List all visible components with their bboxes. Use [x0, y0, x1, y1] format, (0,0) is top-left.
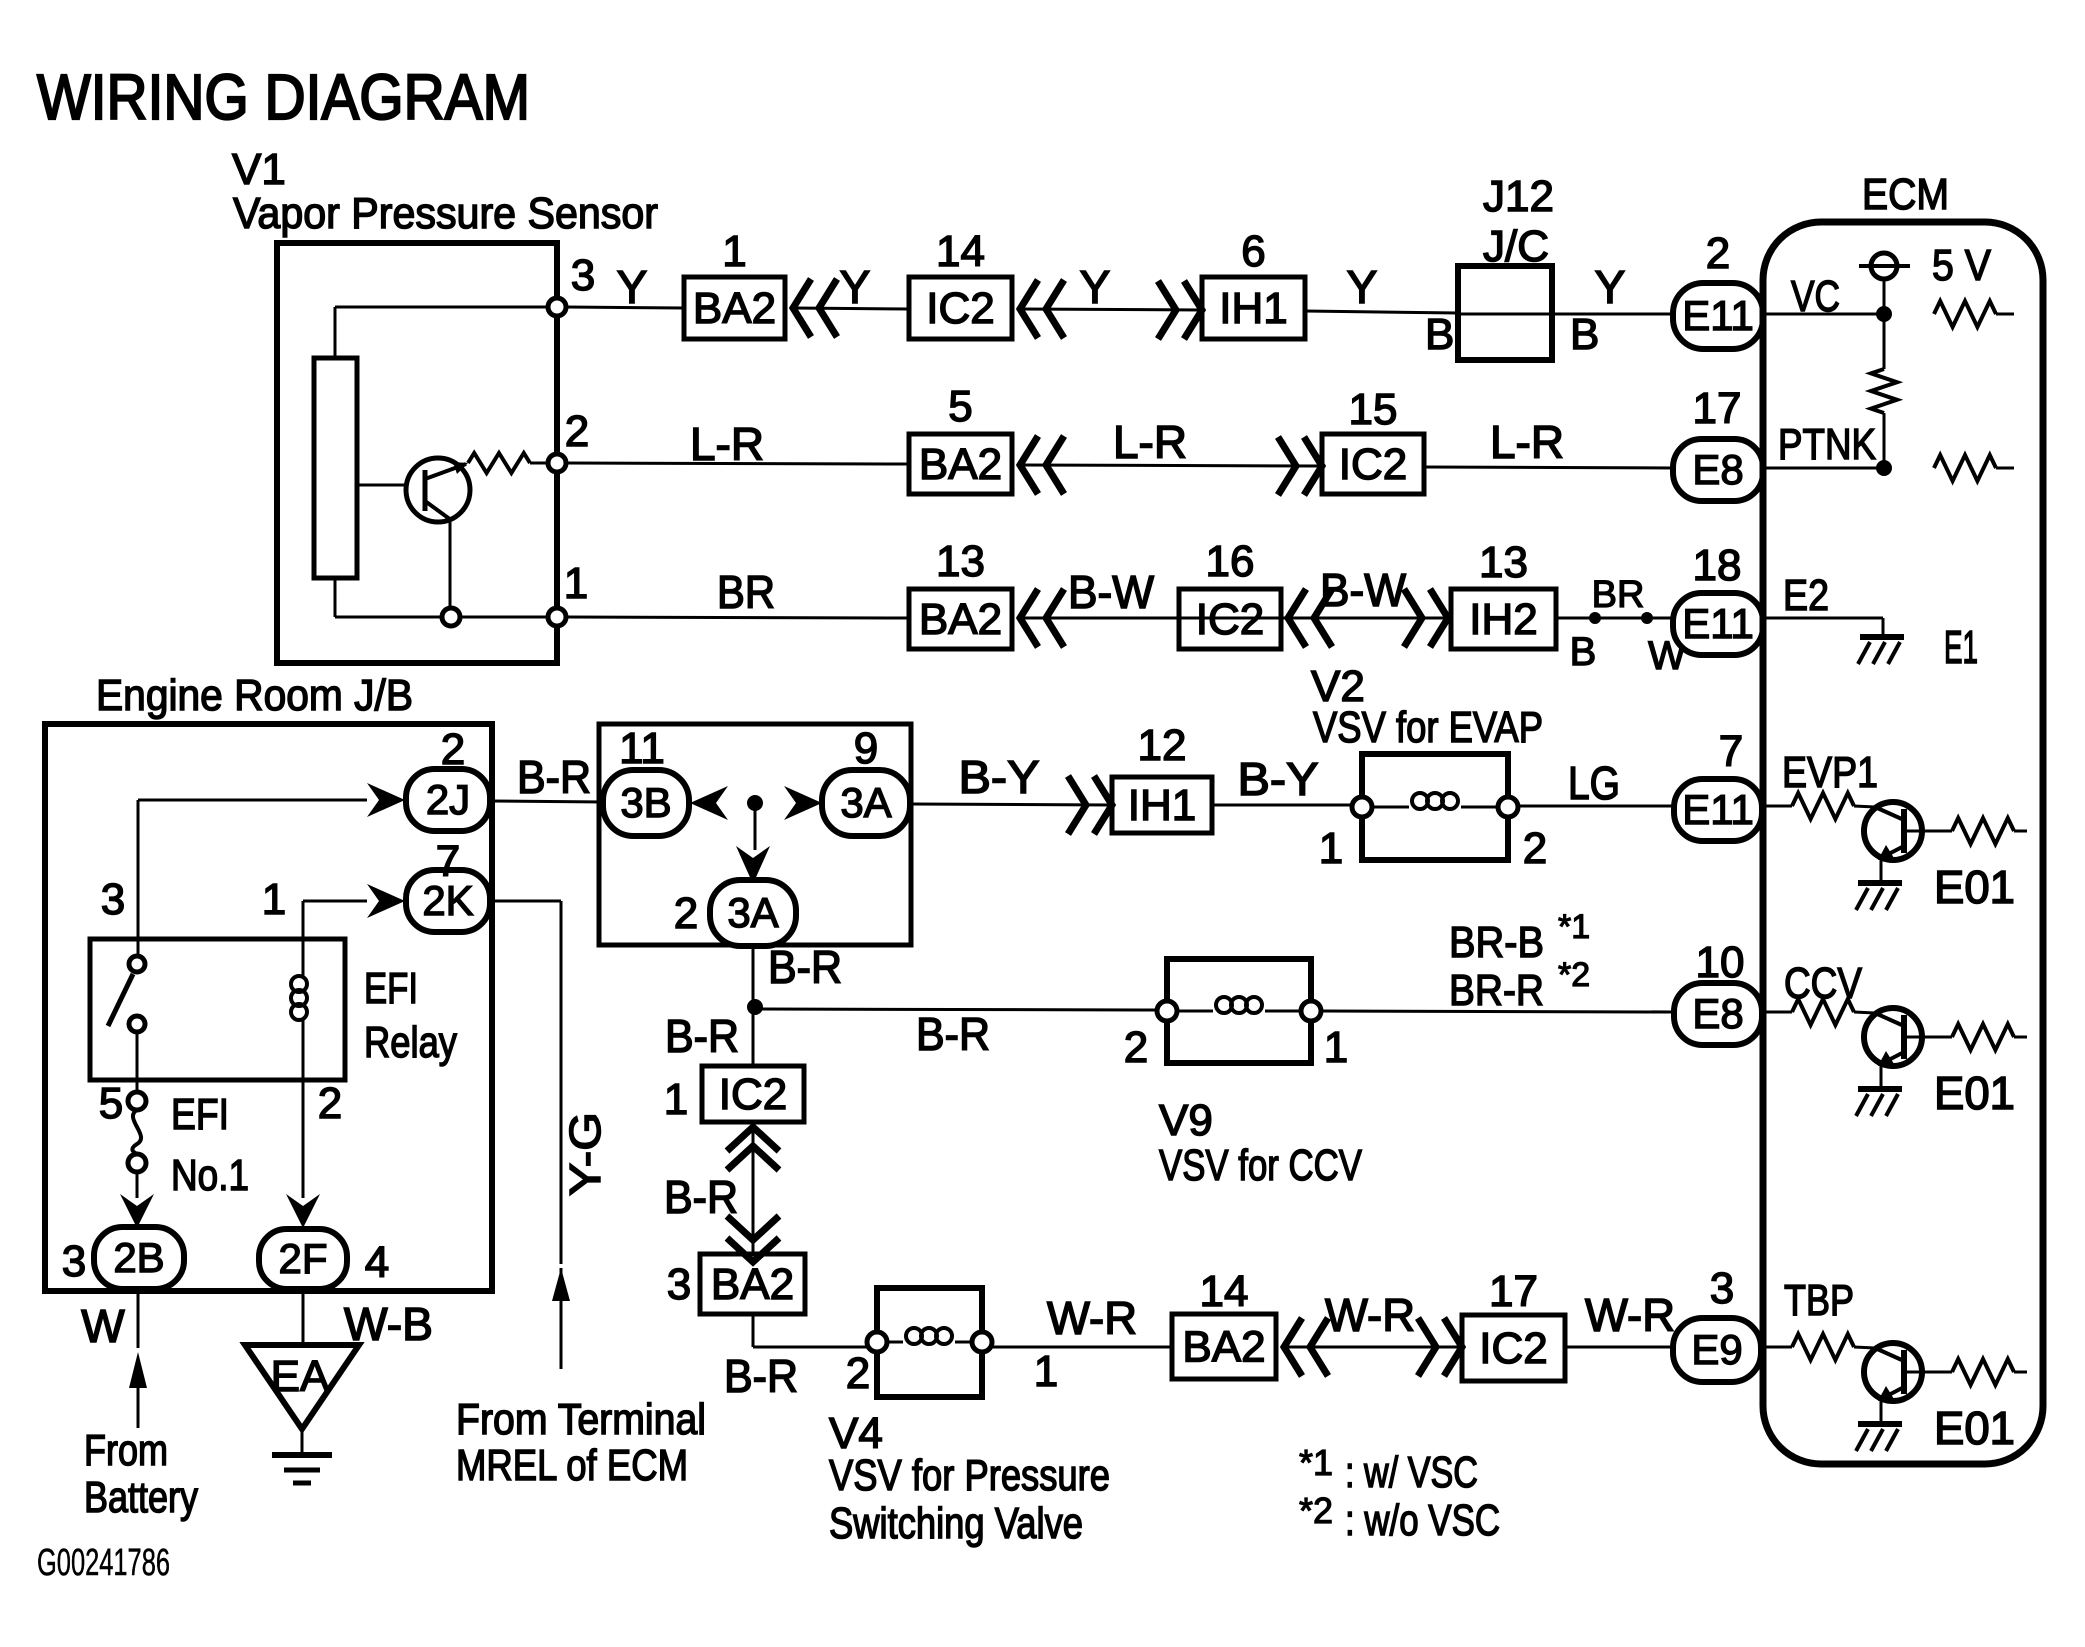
svg-text:BA2: BA2: [919, 595, 1002, 644]
svg-text:E01: E01: [1934, 861, 2015, 913]
svg-text:Y: Y: [1347, 261, 1378, 313]
svg-text:4: 4: [365, 1238, 389, 1287]
svg-text:W-R: W-R: [1325, 1289, 1415, 1341]
svg-text:J12: J12: [1483, 172, 1554, 221]
svg-text:B-W: B-W: [1068, 566, 1155, 618]
svg-text:BR-B: BR-B: [1449, 918, 1544, 967]
svg-text:1: 1: [262, 875, 286, 924]
svg-text:1: 1: [664, 1075, 688, 1124]
svg-text:BR: BR: [717, 566, 775, 618]
svg-text:V9: V9: [1159, 1096, 1213, 1145]
svg-text:: w/o VSC: : w/o VSC: [1345, 1496, 1500, 1545]
svg-text:3A: 3A: [840, 779, 891, 826]
svg-text:IH2: IH2: [1469, 595, 1537, 644]
svg-text:IC2: IC2: [1339, 440, 1407, 489]
svg-text:3: 3: [667, 1260, 691, 1309]
svg-text:6: 6: [1241, 227, 1265, 276]
svg-text:E01: E01: [1934, 1402, 2015, 1454]
svg-text:2B: 2B: [113, 1234, 164, 1281]
svg-text:V1: V1: [232, 145, 286, 194]
svg-text:Y-G: Y-G: [561, 1112, 610, 1196]
svg-text:Y: Y: [617, 261, 648, 313]
svg-text:IC2: IC2: [926, 284, 994, 333]
svg-text:From: From: [84, 1426, 168, 1475]
svg-text:IH1: IH1: [1128, 781, 1196, 830]
svg-text:Relay: Relay: [364, 1018, 457, 1067]
svg-text:B-W: B-W: [1320, 564, 1407, 616]
svg-text:PTNK: PTNK: [1778, 420, 1876, 469]
svg-text:IH1: IH1: [1219, 284, 1287, 333]
svg-text:12: 12: [1138, 721, 1187, 770]
svg-text:BR: BR: [1592, 574, 1645, 616]
svg-text:IC2: IC2: [1196, 595, 1264, 644]
svg-text:B: B: [1570, 310, 1599, 359]
svg-text:Engine Room J/B: Engine Room J/B: [96, 671, 413, 720]
svg-text:2: 2: [441, 725, 465, 774]
svg-text:*1: *1: [1558, 908, 1590, 946]
svg-text:EVP1: EVP1: [1782, 748, 1878, 797]
svg-text:2: 2: [318, 1079, 342, 1128]
svg-text:W-R: W-R: [1585, 1289, 1675, 1341]
svg-text:E8: E8: [1692, 990, 1743, 1037]
svg-text:2F: 2F: [278, 1235, 327, 1282]
svg-text:3A: 3A: [727, 889, 778, 936]
svg-text:16: 16: [1206, 537, 1255, 586]
svg-text:*2: *2: [1299, 1490, 1333, 1531]
svg-text:B-R: B-R: [665, 1010, 739, 1062]
svg-text:3: 3: [1710, 1264, 1734, 1313]
svg-text:B-R: B-R: [664, 1171, 738, 1223]
svg-text:BR-R: BR-R: [1449, 966, 1544, 1015]
svg-text:1: 1: [722, 227, 746, 276]
svg-text:1: 1: [1034, 1347, 1058, 1396]
svg-text:B-R: B-R: [724, 1350, 798, 1402]
svg-text:E11: E11: [1682, 292, 1754, 339]
svg-text:1: 1: [564, 559, 588, 608]
svg-text:BA2: BA2: [711, 1260, 794, 1309]
svg-text:B-Y: B-Y: [959, 751, 1040, 803]
svg-text:5: 5: [948, 382, 972, 431]
svg-text:Battery: Battery: [84, 1473, 198, 1522]
svg-text:3: 3: [62, 1237, 86, 1286]
svg-text:11: 11: [619, 724, 665, 773]
svg-text:G00241786: G00241786: [37, 1542, 170, 1584]
svg-text:W-R: W-R: [1047, 1292, 1137, 1344]
svg-text:1: 1: [1319, 824, 1343, 873]
svg-text:MREL of ECM: MREL of ECM: [456, 1441, 688, 1490]
svg-text:3: 3: [571, 251, 595, 300]
svg-text:ECM: ECM: [1862, 170, 1949, 219]
svg-text:L-R: L-R: [1113, 416, 1187, 468]
svg-text:1: 1: [1324, 1023, 1348, 1072]
svg-text:E11: E11: [1682, 600, 1754, 647]
svg-text:E8: E8: [1692, 446, 1743, 493]
svg-text:B-R: B-R: [517, 751, 591, 803]
svg-text:15: 15: [1349, 385, 1398, 434]
svg-text:5 V: 5 V: [1932, 241, 1992, 290]
svg-text:E01: E01: [1934, 1067, 2015, 1119]
svg-text:EFI: EFI: [364, 964, 418, 1013]
svg-text:E2: E2: [1783, 571, 1829, 620]
svg-text:10: 10: [1696, 938, 1745, 987]
svg-text:B-R: B-R: [768, 941, 842, 993]
svg-text:2: 2: [1124, 1023, 1148, 1072]
svg-text:B-Y: B-Y: [1238, 753, 1319, 805]
svg-text:BA2: BA2: [1182, 1323, 1265, 1372]
svg-text:VSV for EVAP: VSV for EVAP: [1313, 703, 1543, 752]
svg-text:W: W: [81, 1300, 125, 1352]
svg-text:From Terminal: From Terminal: [456, 1395, 706, 1444]
svg-text:Vapor Pressure Sensor: Vapor Pressure Sensor: [233, 189, 658, 238]
svg-text:B: B: [1425, 310, 1454, 359]
svg-text:5: 5: [99, 1079, 123, 1128]
svg-text:No.1: No.1: [171, 1151, 249, 1200]
svg-text:13: 13: [936, 537, 985, 586]
svg-text:*1: *1: [1299, 1442, 1333, 1483]
svg-text:VSV for Pressure: VSV for Pressure: [829, 1451, 1110, 1500]
svg-text:BA2: BA2: [693, 284, 776, 333]
svg-text:IC2: IC2: [1479, 1324, 1547, 1373]
svg-text:L-R: L-R: [1490, 416, 1564, 468]
svg-text:7: 7: [1719, 727, 1743, 776]
svg-text:Switching Valve: Switching Valve: [829, 1499, 1083, 1548]
svg-text:2J: 2J: [426, 776, 470, 823]
svg-text:17: 17: [1489, 1267, 1538, 1316]
svg-text:Y: Y: [840, 261, 871, 313]
svg-text:Y: Y: [1080, 261, 1111, 313]
svg-text:WIRING DIAGRAM: WIRING DIAGRAM: [37, 61, 530, 133]
svg-text:: w/ VSC: : w/ VSC: [1345, 1448, 1478, 1497]
svg-text:B: B: [1570, 630, 1597, 674]
svg-text:*2: *2: [1558, 956, 1590, 994]
svg-text:3B: 3B: [620, 779, 671, 826]
svg-text:E9: E9: [1691, 1326, 1742, 1373]
svg-text:VC: VC: [1791, 272, 1840, 321]
svg-text:TBP: TBP: [1784, 1276, 1854, 1325]
svg-text:17: 17: [1693, 384, 1742, 433]
svg-text:14: 14: [1200, 1267, 1249, 1316]
svg-text:2: 2: [846, 1349, 870, 1398]
svg-text:IC2: IC2: [719, 1070, 787, 1119]
svg-text:2: 2: [1523, 824, 1547, 873]
svg-text:VSV for CCV: VSV for CCV: [1159, 1141, 1363, 1190]
svg-text:14: 14: [936, 227, 985, 276]
svg-text:2: 2: [674, 889, 698, 938]
svg-text:Y: Y: [1595, 261, 1626, 313]
svg-text:18: 18: [1693, 541, 1742, 590]
svg-text:L-R: L-R: [690, 418, 764, 470]
svg-text:LG: LG: [1568, 757, 1620, 809]
svg-text:BA2: BA2: [919, 440, 1002, 489]
svg-text:2: 2: [1706, 229, 1730, 278]
svg-text:13: 13: [1479, 538, 1528, 587]
svg-text:3: 3: [101, 875, 125, 924]
svg-text:E11: E11: [1682, 786, 1754, 833]
svg-text:9: 9: [854, 724, 878, 773]
svg-text:EA: EA: [271, 1352, 330, 1401]
svg-text:E1: E1: [1944, 621, 1978, 673]
svg-text:B-R: B-R: [916, 1008, 990, 1060]
svg-text:EFI: EFI: [171, 1090, 229, 1139]
svg-text:7: 7: [436, 837, 460, 886]
svg-text:2: 2: [565, 407, 589, 456]
